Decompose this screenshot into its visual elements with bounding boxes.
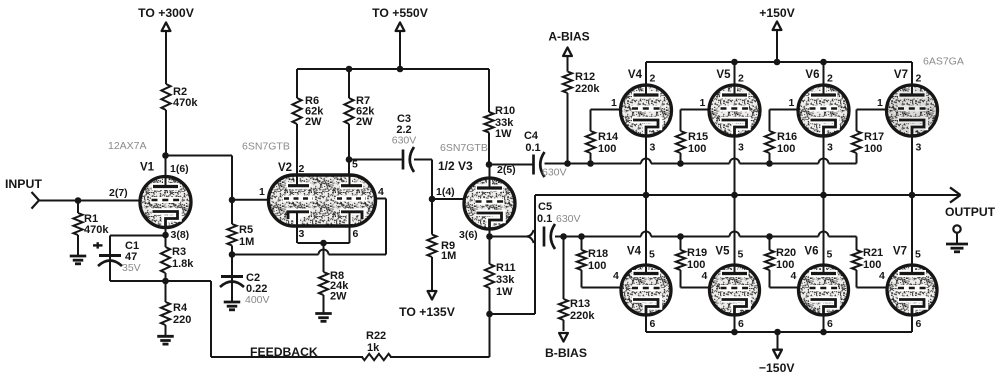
svg-text:100: 100: [863, 259, 881, 271]
svg-text:R5: R5: [239, 224, 253, 236]
svg-text:3: 3: [827, 142, 833, 154]
svg-text:220: 220: [173, 314, 191, 326]
svg-text:R19: R19: [687, 247, 707, 259]
svg-text:V6: V6: [804, 246, 818, 258]
svg-text:R3: R3: [172, 246, 186, 258]
svg-text:R14: R14: [598, 131, 619, 143]
svg-text:V1: V1: [140, 162, 155, 174]
svg-text:3(6): 3(6): [459, 229, 478, 241]
svg-text:2(7): 2(7): [109, 187, 128, 199]
svg-text:V2: V2: [278, 162, 292, 174]
svg-text:2W: 2W: [305, 116, 322, 128]
svg-text:V6: V6: [805, 69, 819, 81]
svg-text:630V: 630V: [556, 213, 581, 225]
svg-text:5: 5: [915, 249, 921, 261]
svg-text:1/2 V3: 1/2 V3: [438, 159, 473, 173]
svg-text:R22: R22: [366, 330, 386, 342]
svg-text:1.8k: 1.8k: [172, 258, 194, 270]
svg-text:220k: 220k: [575, 83, 600, 95]
svg-text:R17: R17: [864, 131, 884, 143]
svg-text:4: 4: [879, 270, 885, 282]
svg-text:2W: 2W: [356, 116, 373, 128]
svg-text:1W: 1W: [496, 286, 513, 298]
svg-text:35V: 35V: [122, 262, 141, 274]
svg-text:1k: 1k: [367, 342, 380, 354]
svg-text:2: 2: [299, 163, 305, 175]
svg-text:R11: R11: [496, 262, 516, 274]
svg-text:R4: R4: [173, 302, 188, 314]
svg-text:12AX7A: 12AX7A: [108, 140, 147, 152]
svg-text:V7: V7: [893, 246, 907, 258]
svg-text:1M: 1M: [441, 250, 456, 262]
svg-text:V5: V5: [715, 246, 730, 258]
svg-text:5: 5: [827, 249, 833, 261]
svg-text:33k: 33k: [496, 274, 515, 286]
svg-text:2: 2: [738, 73, 744, 85]
svg-text:100: 100: [776, 259, 794, 271]
svg-text:R21: R21: [863, 247, 883, 259]
svg-text:6: 6: [916, 318, 922, 330]
svg-text:4: 4: [791, 270, 797, 282]
svg-text:2W: 2W: [330, 291, 347, 303]
svg-text:0.1: 0.1: [525, 142, 540, 154]
svg-text:5: 5: [738, 249, 744, 261]
svg-text:FEEDBACK: FEEDBACK: [250, 345, 318, 359]
svg-text:3: 3: [738, 142, 744, 154]
svg-text:V5: V5: [716, 69, 731, 81]
svg-text:4: 4: [702, 270, 708, 282]
svg-text:1M: 1M: [239, 236, 254, 248]
svg-text:6AS7GA: 6AS7GA: [923, 56, 964, 68]
svg-text:220k: 220k: [570, 310, 595, 322]
svg-text:3(8): 3(8): [171, 229, 190, 241]
svg-text:1(4): 1(4): [436, 186, 455, 198]
svg-text:1: 1: [259, 186, 265, 198]
svg-text:TO +550V: TO +550V: [372, 6, 429, 20]
svg-text:TO +300V: TO +300V: [138, 6, 195, 20]
svg-text:1: 1: [877, 97, 883, 109]
svg-text:2(5): 2(5): [497, 164, 516, 176]
svg-text:R13: R13: [570, 298, 590, 310]
svg-text:R12: R12: [575, 71, 595, 83]
svg-text:V4: V4: [628, 69, 643, 81]
svg-text:1W: 1W: [495, 128, 512, 140]
svg-text:400V: 400V: [245, 294, 270, 306]
svg-text:R20: R20: [776, 247, 796, 259]
svg-text:1: 1: [700, 97, 706, 109]
svg-text:4: 4: [613, 270, 619, 282]
svg-text:1: 1: [789, 97, 795, 109]
svg-text:470k: 470k: [84, 224, 109, 236]
svg-text:6: 6: [650, 318, 656, 330]
svg-text:+150V: +150V: [759, 6, 795, 20]
svg-text:100: 100: [687, 259, 705, 271]
svg-text:100: 100: [588, 260, 606, 272]
svg-text:TO +135V: TO +135V: [399, 305, 456, 319]
svg-text:V7: V7: [894, 69, 908, 81]
svg-text:INPUT: INPUT: [5, 177, 42, 191]
svg-text:1(6): 1(6): [170, 163, 189, 175]
svg-text:5: 5: [352, 159, 358, 171]
svg-text:R15: R15: [688, 131, 708, 143]
svg-text:0.1: 0.1: [537, 213, 552, 225]
svg-text:630V: 630V: [392, 135, 417, 147]
svg-text:2: 2: [827, 73, 833, 85]
svg-text:2: 2: [650, 73, 656, 85]
svg-text:630V: 630V: [542, 167, 567, 179]
svg-text:V4: V4: [627, 246, 642, 258]
svg-text:3: 3: [299, 228, 305, 240]
svg-text:3: 3: [916, 142, 922, 154]
svg-text:3: 3: [650, 142, 656, 154]
svg-text:100: 100: [864, 143, 882, 155]
svg-text:100: 100: [688, 143, 706, 155]
svg-text:6SN7GTB: 6SN7GTB: [242, 141, 290, 153]
svg-text:1: 1: [611, 97, 617, 109]
svg-text:A-BIAS: A-BIAS: [548, 30, 589, 44]
svg-text:6SN7GTB: 6SN7GTB: [440, 142, 488, 154]
svg-text:100: 100: [598, 143, 616, 155]
svg-text:6: 6: [827, 318, 833, 330]
svg-text:C4: C4: [524, 130, 539, 142]
svg-text:R18: R18: [588, 248, 608, 260]
svg-text:470k: 470k: [173, 97, 198, 109]
svg-text:6: 6: [353, 228, 359, 240]
svg-text:OUTPUT: OUTPUT: [945, 205, 996, 219]
svg-text:100: 100: [777, 143, 795, 155]
svg-text:6: 6: [738, 318, 744, 330]
svg-text:2: 2: [916, 73, 922, 85]
svg-text:R10: R10: [495, 105, 515, 117]
svg-text:R16: R16: [777, 131, 797, 143]
svg-text:4: 4: [378, 186, 384, 198]
svg-text:B-BIAS: B-BIAS: [545, 346, 587, 360]
svg-text:−150V: −150V: [759, 361, 795, 375]
svg-text:C5: C5: [538, 201, 552, 213]
svg-text:5: 5: [649, 249, 655, 261]
